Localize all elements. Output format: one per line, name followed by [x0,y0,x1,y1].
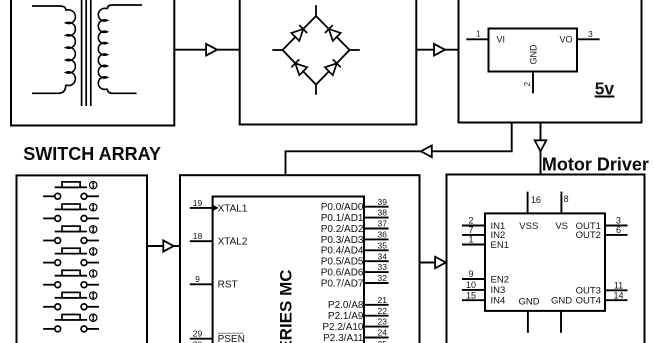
svg-text:P0.6/AD6: P0.6/AD6 [321,268,364,279]
svg-text:18: 18 [193,231,203,241]
svg-text:36: 36 [378,230,388,240]
svg-text:P0.7/AD7: P0.7/AD7 [321,278,364,289]
svg-text:21: 21 [378,295,388,305]
svg-text:EN2: EN2 [491,274,509,285]
svg-text:8: 8 [564,194,569,204]
svg-text:6: 6 [616,225,621,235]
svg-text:37: 37 [378,219,388,229]
svg-text:VO: VO [560,34,573,44]
svg-text:14: 14 [613,290,623,300]
svg-text:GND: GND [551,295,572,306]
svg-text:XTAL2: XTAL2 [218,237,248,248]
svg-text:15: 15 [466,290,476,300]
svg-text:P2.3/A11: P2.3/A11 [323,333,364,343]
svg-text:25: 25 [378,339,388,343]
svg-text:P0.0/AD0: P0.0/AD0 [321,202,364,213]
svg-text:29: 29 [193,329,203,339]
svg-text:GND: GND [529,44,539,65]
svg-text:P0.2/AD2: P0.2/AD2 [321,224,364,235]
svg-text:VSS: VSS [519,221,538,232]
svg-text:EN1: EN1 [491,240,509,251]
svg-text:RST: RST [218,280,238,291]
svg-text:SWITCH ARRAY: SWITCH ARRAY [23,144,161,164]
svg-text:1: 1 [468,235,473,245]
svg-text:24: 24 [378,328,388,338]
svg-text:35: 35 [378,240,388,250]
svg-text:39: 39 [378,197,388,207]
svg-text:23: 23 [378,317,388,327]
svg-text:XTAL1: XTAL1 [218,203,248,214]
svg-text:9: 9 [468,269,473,279]
svg-text:GND: GND [518,296,539,307]
svg-text:P0.4/AD4: P0.4/AD4 [321,246,364,257]
svg-text:19: 19 [193,198,203,208]
svg-text:1: 1 [476,30,481,39]
svg-text:10: 10 [466,280,476,290]
svg-text:5v: 5v [595,79,615,99]
svg-text:P0.5/AD5: P0.5/AD5 [321,257,364,268]
svg-text:9: 9 [195,274,200,284]
svg-text:P0.3/AD3: P0.3/AD3 [321,235,364,246]
svg-text:SERIES MC: SERIES MC [277,269,296,343]
svg-text:3: 3 [588,30,593,39]
svg-text:33: 33 [378,262,388,272]
svg-text:PSEN: PSEN [218,334,245,343]
svg-text:Motor Driver: Motor Driver [542,155,649,175]
svg-text:38: 38 [378,208,388,218]
svg-text:P2.1/A9: P2.1/A9 [328,311,364,322]
svg-text:16: 16 [531,195,541,205]
svg-text:32: 32 [378,273,388,283]
svg-text:OUT2: OUT2 [576,230,601,241]
svg-text:11: 11 [614,281,623,291]
svg-text:P0.1/AD1: P0.1/AD1 [321,213,364,224]
svg-text:P2.2/A10: P2.2/A10 [322,322,364,333]
svg-text:IN4: IN4 [491,296,506,307]
svg-text:30: 30 [193,340,203,343]
svg-text:2: 2 [523,81,532,86]
svg-text:VS: VS [555,221,568,232]
svg-text:22: 22 [378,306,388,316]
svg-text:OUT4: OUT4 [576,296,601,307]
svg-text:34: 34 [378,251,388,261]
svg-text:7: 7 [468,225,473,235]
svg-text:P2.0/A8: P2.0/A8 [328,300,364,311]
svg-text:VI: VI [497,34,506,44]
